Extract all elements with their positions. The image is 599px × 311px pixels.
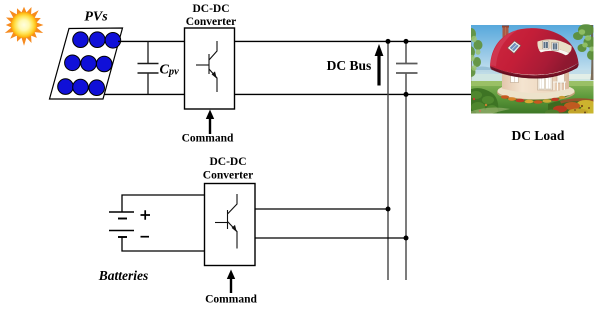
svg-text:PVs: PVs [84, 10, 108, 25]
svg-text:DC Load: DC Load [512, 128, 565, 143]
svg-text:Command: Command [205, 294, 257, 306]
svg-text:Batteries: Batteries [98, 268, 149, 283]
svg-text:DC Bus: DC Bus [327, 58, 372, 73]
svg-text:DC-DC: DC-DC [192, 3, 229, 15]
svg-text:Command: Command [182, 133, 234, 145]
svg-text:DC-DC: DC-DC [209, 156, 246, 168]
svg-text:Converter: Converter [203, 170, 253, 182]
svg-text:Converter: Converter [186, 16, 236, 28]
